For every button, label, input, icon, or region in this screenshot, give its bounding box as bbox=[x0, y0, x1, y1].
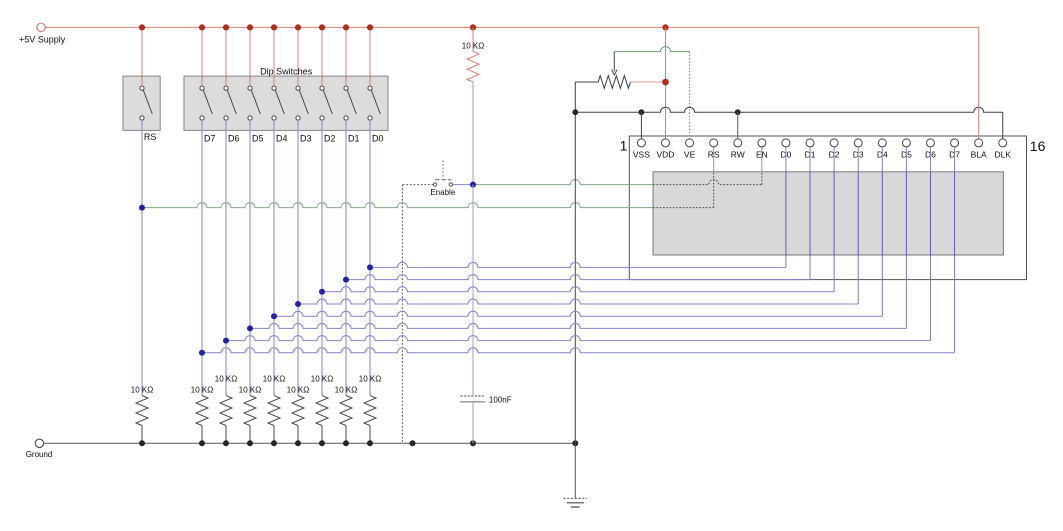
svg-text:1: 1 bbox=[620, 138, 628, 154]
svg-text:RS: RS bbox=[144, 132, 157, 142]
svg-text:100nF: 100nF bbox=[489, 396, 512, 405]
svg-text:VE: VE bbox=[684, 150, 696, 160]
svg-text:10 KΩ: 10 KΩ bbox=[215, 375, 237, 384]
svg-text:10 KΩ: 10 KΩ bbox=[191, 385, 213, 394]
svg-text:D7: D7 bbox=[204, 133, 216, 143]
svg-text:10 KΩ: 10 KΩ bbox=[311, 375, 333, 384]
svg-text:VSS: VSS bbox=[633, 150, 650, 160]
svg-text:D6: D6 bbox=[228, 133, 240, 143]
svg-text:VDD: VDD bbox=[657, 150, 675, 160]
svg-text:D2: D2 bbox=[324, 133, 336, 143]
svg-text:D3: D3 bbox=[300, 133, 312, 143]
svg-text:RW: RW bbox=[731, 150, 745, 160]
svg-text:BLA: BLA bbox=[971, 150, 987, 160]
svg-text:D1: D1 bbox=[348, 133, 360, 143]
svg-text:16: 16 bbox=[1030, 138, 1046, 154]
svg-text:DLK: DLK bbox=[994, 150, 1011, 160]
svg-text:D4: D4 bbox=[276, 133, 288, 143]
svg-text:EN: EN bbox=[756, 150, 768, 160]
svg-text:10 KΩ: 10 KΩ bbox=[131, 385, 153, 394]
svg-text:Ground: Ground bbox=[26, 450, 53, 459]
svg-text:Dip Switches: Dip Switches bbox=[260, 67, 313, 77]
svg-text:10 KΩ: 10 KΩ bbox=[335, 385, 357, 394]
svg-text:10 KΩ: 10 KΩ bbox=[359, 375, 381, 384]
svg-text:D0: D0 bbox=[372, 133, 384, 143]
svg-text:10 KΩ: 10 KΩ bbox=[287, 385, 309, 394]
svg-text:D5: D5 bbox=[252, 133, 264, 143]
svg-text:10 KΩ: 10 KΩ bbox=[263, 375, 285, 384]
svg-text:Enable: Enable bbox=[430, 188, 455, 197]
svg-text:10 KΩ: 10 KΩ bbox=[462, 42, 484, 51]
svg-text:RS: RS bbox=[708, 150, 720, 160]
svg-text:+5V Supply: +5V Supply bbox=[19, 35, 66, 45]
svg-text:10 KΩ: 10 KΩ bbox=[239, 385, 261, 394]
